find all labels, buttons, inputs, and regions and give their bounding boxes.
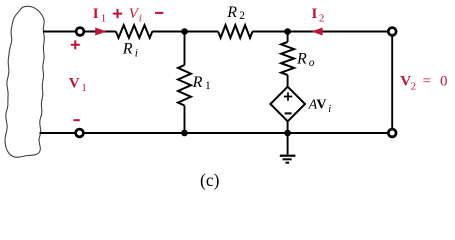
- bottom wire: [83, 132, 389, 134]
- terminal top-right: [388, 28, 396, 36]
- label - (Vi polarity): [155, 12, 163, 14]
- svg-text:R: R: [226, 4, 237, 21]
- svg-text:R: R: [122, 40, 133, 57]
- current arrow I2: [312, 28, 323, 36]
- svg-text:1: 1: [81, 82, 87, 94]
- svg-text:0: 0: [440, 73, 448, 89]
- svg-text:R: R: [192, 74, 203, 91]
- resistor R1: [178, 65, 191, 106]
- node B (top of Ro): [284, 28, 291, 35]
- svg-text:i: i: [139, 12, 142, 24]
- wire node A to R2: [185, 31, 219, 33]
- wire node A down to R1: [184, 32, 186, 66]
- wire source to bottom node D: [287, 121, 289, 133]
- node D (bottom of source): [284, 130, 291, 137]
- dependent source AVi (diamond): [270, 87, 305, 122]
- node A (top of R1): [181, 28, 188, 35]
- svg-text:2: 2: [319, 13, 325, 25]
- svg-text:R: R: [296, 50, 307, 67]
- wire Ri to node A: [152, 31, 184, 33]
- svg-text:i: i: [135, 47, 138, 59]
- svg-text:i: i: [328, 104, 331, 115]
- current arrow I1: [95, 28, 106, 36]
- wire R1 to bottom node C: [184, 106, 186, 134]
- terminal bottom-right: [388, 129, 396, 137]
- resistor R2: [218, 25, 252, 38]
- svg-text:(c): (c): [200, 170, 220, 190]
- svg-text:V: V: [316, 97, 326, 112]
- svg-text:1: 1: [205, 80, 211, 92]
- wire node B to top-right terminal: [288, 31, 389, 33]
- resistor Ro: [281, 42, 294, 75]
- svg-text:I: I: [312, 6, 318, 22]
- wire node B down to Ro: [287, 32, 289, 43]
- label + (V1 polarity): [71, 40, 80, 49]
- source network blob: [5, 6, 44, 157]
- svg-text:I: I: [93, 6, 99, 22]
- ground: [280, 156, 296, 163]
- label + (Vi polarity): [113, 9, 122, 18]
- svg-text:2: 2: [411, 81, 417, 93]
- svg-text:1: 1: [101, 12, 107, 24]
- svg-text:V: V: [69, 75, 80, 91]
- resistor Ri: [116, 25, 152, 38]
- wire blob to bottom-left terminal: [40, 132, 77, 134]
- node C (bottom of R1): [181, 130, 188, 137]
- terminal top-left: [76, 28, 84, 36]
- wire R2 to node B: [253, 31, 288, 33]
- plus sign inside source: [284, 92, 292, 100]
- svg-text:2: 2: [239, 10, 245, 22]
- terminal bottom-left: [76, 129, 84, 137]
- ground stub: [287, 133, 289, 155]
- wire top-left terminal to Ri: [84, 31, 116, 33]
- svg-text:=: =: [423, 73, 431, 89]
- right vertical wire (shorted port): [391, 35, 393, 129]
- minus sign inside source: [285, 112, 292, 114]
- label - (V1 polarity): [73, 119, 79, 121]
- svg-text:o: o: [309, 57, 315, 69]
- wire blob to top-left terminal: [43, 31, 77, 33]
- wire Ro to dependent source: [287, 75, 289, 88]
